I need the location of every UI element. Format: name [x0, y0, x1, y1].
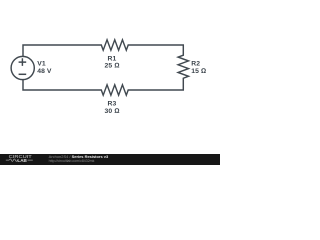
svg-text:R3: R3 — [108, 101, 117, 108]
svg-text:R1: R1 — [108, 55, 117, 62]
svg-text:LAB: LAB — [17, 158, 27, 163]
svg-text:R2: R2 — [191, 61, 200, 68]
svg-text:http://circuitlab.com/c8432mk: http://circuitlab.com/c8432mk — [49, 159, 95, 163]
svg-text:V1: V1 — [37, 61, 46, 68]
svg-text:15 Ω: 15 Ω — [191, 68, 206, 75]
svg-text:48 V: 48 V — [37, 68, 52, 75]
svg-text:25 Ω: 25 Ω — [104, 63, 119, 70]
svg-text:30 Ω: 30 Ω — [104, 108, 119, 115]
